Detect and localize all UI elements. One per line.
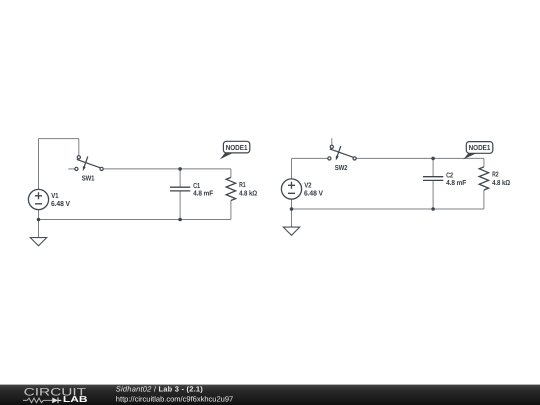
switch SW1 <box>75 156 103 171</box>
wire SW1 left stub <box>68 168 75 170</box>
wire V2 rail to SW2 left terminal <box>292 157 328 159</box>
resistor R1 <box>226 177 235 200</box>
wire R1 bottom lead <box>230 201 232 220</box>
label C2 value <box>446 171 467 188</box>
wire V1 top lead up <box>38 139 40 190</box>
wire C2 top lead <box>432 158 434 176</box>
svg-text:NODE1: NODE1 <box>226 143 248 152</box>
CircuitLab logo resistor squiggle <box>23 398 52 403</box>
svg-text:6.48 V: 6.48 V <box>304 188 323 197</box>
wire C2 bottom lead <box>432 181 434 209</box>
switch SW2 arrow head <box>336 156 339 161</box>
switch SW2 <box>328 145 356 160</box>
svg-text:SW2: SW2 <box>335 163 348 172</box>
label V2 value <box>304 181 323 198</box>
wire C1 top lead <box>179 169 181 187</box>
wire bottom-right rail <box>292 208 484 210</box>
switch SW1 arrow head <box>83 166 86 171</box>
wire ground stem right <box>291 209 293 227</box>
svg-text:4.8 mF: 4.8 mF <box>193 189 214 198</box>
wire ground stem left <box>38 220 40 238</box>
capacitor C1 <box>170 187 190 191</box>
label R1 value <box>239 180 257 198</box>
node flag NODE1 left tail <box>220 153 234 160</box>
wire top-left rail <box>39 138 79 140</box>
svg-text:6.48 V: 6.48 V <box>51 199 70 208</box>
voltage source V2 <box>281 179 301 199</box>
junction dot C1 top <box>178 167 182 171</box>
node flag NODE1 right bubble <box>466 142 493 154</box>
footer bar <box>0 385 540 405</box>
node flag NODE1 right tail <box>463 153 476 159</box>
voltage source V1 <box>28 189 48 209</box>
CircuitLab logo diode <box>52 398 58 404</box>
label C1 value <box>193 181 214 198</box>
svg-text:4.8 kΩ: 4.8 kΩ <box>239 189 257 198</box>
svg-text:SW1: SW1 <box>82 173 95 182</box>
wire R2 top lead <box>483 158 485 167</box>
ground left <box>30 238 46 246</box>
svg-text:NODE1: NODE1 <box>469 143 491 152</box>
wire SW2 right to R2 top rail <box>356 157 484 159</box>
wire V2 bottom lead <box>291 199 293 209</box>
svg-text:LAB: LAB <box>63 394 88 404</box>
resistor R2 <box>479 167 488 190</box>
wire R1 top lead <box>230 169 232 178</box>
junction dot C2 top <box>431 157 435 161</box>
wire R2 bottom lead <box>483 190 485 209</box>
ground right <box>283 227 299 235</box>
wire bottom-left rail <box>39 219 231 221</box>
junction dot C2 bottom <box>431 207 435 211</box>
svg-text:4.8 kΩ: 4.8 kΩ <box>492 178 510 187</box>
svg-text:Sidhant02 / Lab 3 - (2.1): Sidhant02 / Lab 3 - (2.1) <box>116 385 204 394</box>
svg-text:4.8 mF: 4.8 mF <box>446 178 467 187</box>
wire C1 bottom lead <box>179 191 181 219</box>
node flag NODE1 left bubble <box>223 141 249 153</box>
label R2 value <box>492 170 510 188</box>
wire down to SW1 top terminal <box>78 139 80 156</box>
junction dot V1 bottom <box>37 218 41 222</box>
wire V2 top lead up <box>291 158 293 179</box>
svg-text:http://circuitlab.com/c9f6xkhc: http://circuitlab.com/c9f6xkhcu2u97 <box>116 394 233 403</box>
junction dot C1 bottom <box>178 218 182 222</box>
junction dot V2 bottom <box>290 207 294 211</box>
label V1 value <box>51 191 70 208</box>
wire SW2 top stub <box>331 138 333 145</box>
wire SW1 right to R1 top rail <box>103 168 231 170</box>
wire V1 bottom lead <box>38 210 40 220</box>
capacitor C2 <box>423 177 443 181</box>
